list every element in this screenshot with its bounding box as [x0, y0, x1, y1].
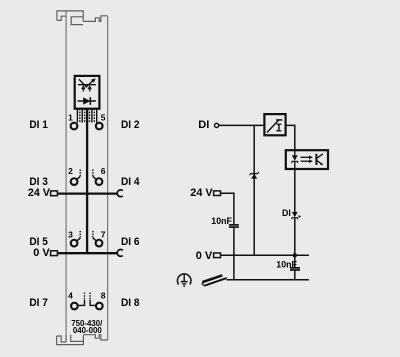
earth rail	[227, 279, 309, 281]
terminal 7	[96, 240, 103, 247]
LED indicator DI	[292, 212, 301, 219]
terminal 6	[96, 178, 103, 185]
wire junction to C2	[294, 255, 296, 268]
current limiter symbol	[267, 120, 282, 133]
optocoupler phototransistor	[316, 154, 323, 165]
svg-text:4: 4	[68, 291, 73, 301]
wire 24V to capacitor C1	[221, 193, 234, 225]
LED box	[75, 76, 100, 109]
terminal 4	[71, 303, 78, 310]
LED symbol (status LEDs)	[78, 78, 96, 91]
module right edge	[107, 16, 109, 340]
terminal 6 clamp tail	[93, 176, 97, 179]
terminal 2 clamp tail	[76, 176, 80, 179]
terminal 2	[71, 178, 78, 185]
terminal 8	[96, 303, 103, 310]
functional earth symbol	[177, 274, 191, 286]
svg-text:DI 6: DI 6	[121, 236, 140, 248]
0V wire	[58, 252, 118, 254]
optocoupler LED	[292, 150, 298, 169]
wire C1 to earth rail	[233, 228, 235, 280]
wire zener branch vertical	[253, 125, 255, 255]
wire DI input to limiter	[219, 124, 264, 126]
optocoupler box U2	[286, 150, 328, 169]
module left edge	[65, 11, 67, 335]
optocoupler arrows	[301, 156, 314, 164]
terminal 8 clamp tail	[90, 300, 96, 306]
terminal 4 clamp tail	[77, 300, 84, 306]
svg-text:040-000: 040-000	[73, 326, 103, 335]
zener diode Z1	[250, 172, 259, 179]
svg-text:DI: DI	[282, 208, 291, 218]
DI input terminal circle	[215, 123, 219, 127]
svg-text:0 V: 0 V	[33, 247, 50, 259]
capacitor C1	[229, 225, 239, 227]
svg-text:DI 2: DI 2	[121, 119, 140, 131]
module bottom cap profile	[57, 335, 108, 345]
24V schematic terminal square	[214, 191, 221, 196]
svg-text:DI 4: DI 4	[121, 176, 140, 188]
0V right contact arc	[117, 250, 123, 257]
terminal 7 clamp tail	[93, 238, 97, 241]
terminal 3 clamp tail	[76, 238, 80, 241]
0V rail	[221, 254, 309, 256]
internal bus wire (center vertical)	[86, 109, 88, 255]
svg-text:3: 3	[68, 229, 73, 239]
terminal 5	[96, 123, 103, 130]
svg-text:24 V: 24 V	[190, 187, 213, 199]
wire optocoupler to LED indicator	[294, 169, 296, 212]
0V schematic terminal square	[214, 253, 221, 258]
diode D1 in LED box	[78, 97, 96, 105]
junction node	[293, 253, 297, 257]
svg-text:1: 1	[68, 113, 73, 123]
svg-text:DI 8: DI 8	[121, 297, 140, 309]
svg-text:8: 8	[101, 291, 106, 301]
svg-text:6: 6	[101, 166, 106, 176]
svg-text:DI 1: DI 1	[29, 119, 48, 131]
svg-text:7: 7	[101, 229, 106, 239]
module top cap profile	[57, 11, 108, 25]
svg-text:0 V: 0 V	[196, 250, 213, 262]
24V field terminal square	[51, 191, 58, 196]
contact comb below LED box	[77, 109, 96, 123]
wire LED indicator to 0V rail	[294, 218, 296, 255]
capacitor C2	[290, 268, 300, 270]
24V wire	[58, 192, 118, 194]
wire C2 to earth rail	[294, 270, 296, 280]
svg-text:5: 5	[101, 113, 106, 123]
0V field terminal square	[51, 251, 58, 256]
current limiter box U1	[264, 114, 285, 135]
svg-text:DI 7: DI 7	[29, 297, 48, 309]
24V right contact arc	[117, 190, 123, 197]
terminal 3	[71, 240, 78, 247]
svg-text:DI: DI	[198, 119, 209, 131]
wire limiter to optocoupler	[286, 125, 295, 150]
svg-text:24 V: 24 V	[28, 187, 51, 199]
svg-text:2: 2	[68, 166, 73, 176]
rail contact wedge symbol	[202, 274, 227, 287]
terminal 1	[71, 123, 78, 130]
